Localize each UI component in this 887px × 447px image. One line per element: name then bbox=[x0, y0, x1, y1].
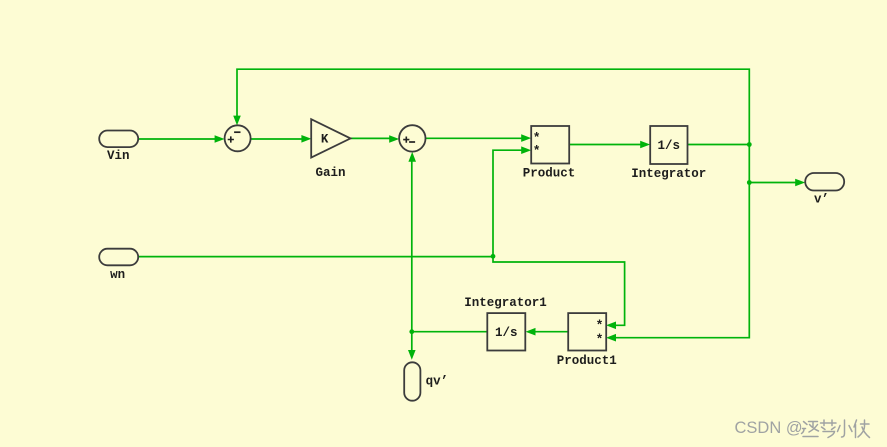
wire Gain to Sum1 bbox=[351, 137, 390, 139]
input port wn bbox=[99, 249, 138, 266]
junction wn node bbox=[491, 254, 496, 259]
svg-text:Integrator: Integrator bbox=[631, 167, 706, 181]
wire node up to Sum1 bottom bbox=[411, 161, 413, 331]
svg-text:CSDN @: CSDN @ bbox=[735, 419, 803, 437]
svg-text:1/s: 1/s bbox=[495, 326, 518, 340]
product block Product1 bbox=[568, 313, 606, 350]
sign plus Sum1 bbox=[403, 137, 409, 143]
wire Sum to Gain bbox=[251, 138, 302, 140]
wire Product1 to Integrator1 bbox=[535, 331, 568, 333]
svg-text:Vin: Vin bbox=[107, 149, 130, 163]
wire node to Product input 2 bbox=[493, 150, 522, 256]
wire Integrator1 to node bbox=[412, 331, 488, 333]
svg-text:*: * bbox=[533, 144, 541, 159]
svg-text:Product: Product bbox=[523, 166, 576, 180]
junction qv node bbox=[409, 329, 414, 334]
sign plus Sum bbox=[228, 136, 234, 142]
product block Product bbox=[531, 126, 569, 164]
svg-text:K: K bbox=[321, 132, 329, 146]
output port v' bbox=[805, 173, 844, 191]
svg-text:wn: wn bbox=[110, 268, 125, 282]
input port Vin bbox=[99, 131, 138, 148]
wire down to Product1 input 2 bbox=[615, 145, 749, 338]
junction integrator-output / feedback bbox=[747, 142, 752, 147]
sign minus Sum1 bbox=[409, 141, 415, 143]
svg-text:qv’: qv’ bbox=[426, 374, 449, 388]
sign minus Sum bbox=[234, 131, 240, 133]
wire junction to outport v' bbox=[749, 182, 796, 184]
wire Product to Integrator bbox=[569, 144, 641, 146]
sum block Sum bbox=[225, 125, 251, 151]
watermark glyph 梦 bbox=[821, 420, 837, 438]
svg-text:v’: v’ bbox=[814, 193, 829, 207]
svg-text:1/s: 1/s bbox=[658, 139, 681, 153]
wire node to Product1 input 1 bbox=[493, 256, 625, 325]
wire Sum1 to Product input 1 bbox=[426, 137, 522, 139]
output port qv' bbox=[404, 362, 420, 400]
sum block Sum1 bbox=[399, 125, 425, 151]
svg-text:Integrator1: Integrator1 bbox=[464, 296, 547, 310]
gain block Gain bbox=[311, 119, 350, 157]
svg-text:*: * bbox=[596, 318, 604, 333]
svg-text:Gain: Gain bbox=[315, 166, 345, 180]
wire Vin to Sum bbox=[139, 138, 216, 140]
watermark glyph 小 bbox=[838, 420, 853, 437]
watermark glyph 伙 bbox=[854, 420, 870, 438]
svg-text:*: * bbox=[596, 332, 604, 347]
junction v' branch bbox=[747, 180, 752, 185]
svg-text:Product1: Product1 bbox=[557, 354, 617, 368]
integrator block Integrator bbox=[650, 126, 687, 164]
wire feedback Integrator output to Sum top bbox=[237, 69, 749, 144]
wire node down to outport qv' bbox=[411, 332, 413, 351]
watermark glyph 逐 bbox=[802, 422, 819, 437]
integrator block Integrator1 bbox=[487, 313, 525, 350]
wire wn to node bbox=[139, 256, 494, 258]
